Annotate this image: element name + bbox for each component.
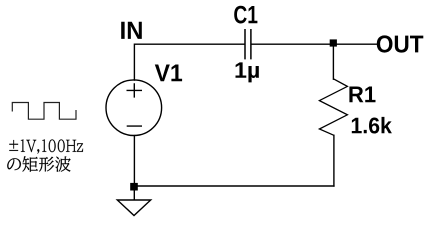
- capacitor C1: [245, 29, 251, 59]
- wire: [133, 136, 135, 190]
- wire: [134, 44, 244, 80]
- annotation square-wave note: [7, 156, 70, 172]
- resistor R1: [319, 79, 347, 136]
- ground: [117, 190, 150, 216]
- label R1: [349, 87, 375, 103]
- node label IN: [121, 22, 142, 39]
- node junction at ground: [130, 183, 138, 191]
- wire: [134, 185, 334, 187]
- value label 1.6k: [352, 117, 392, 134]
- wire: [332, 44, 334, 79]
- square wave icon: [12, 103, 76, 120]
- value label 1µ: [236, 62, 259, 82]
- wire: [333, 43, 376, 45]
- label C1: [234, 6, 257, 24]
- node junction at OUT: [330, 39, 337, 46]
- label V1: [155, 65, 182, 82]
- wire: [333, 135, 335, 186]
- voltage source V1: [106, 80, 162, 136]
- wire: [251, 43, 333, 45]
- node label OUT: [377, 35, 424, 52]
- annotation ±1V,100Hz: [9, 139, 83, 154]
